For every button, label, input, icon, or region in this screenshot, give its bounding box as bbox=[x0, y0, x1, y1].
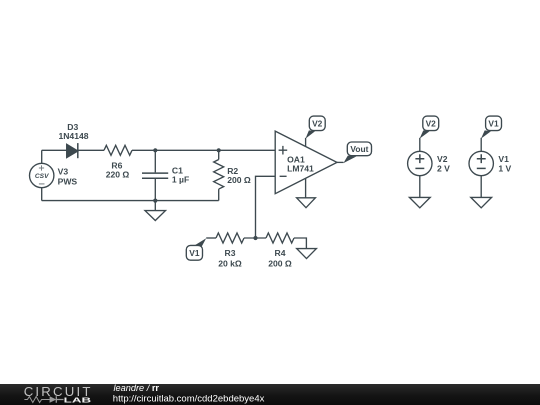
label C1 1uF bbox=[172, 165, 189, 184]
label V3 PWS bbox=[58, 167, 78, 187]
wire op-amp negative supply pin bbox=[305, 178, 307, 198]
op-amp OA1 LM741 bbox=[275, 131, 337, 194]
wire V1 flag to R3 bbox=[206, 237, 216, 239]
svg-text:20 kΩ: 20 kΩ bbox=[218, 259, 242, 269]
label OA1 LM741 bbox=[287, 154, 314, 173]
ground under op-amp bbox=[297, 198, 316, 208]
svg-text:LAB: LAB bbox=[64, 396, 92, 405]
resistor R3 bbox=[216, 233, 244, 243]
wire V3 bottom bbox=[41, 188, 43, 201]
flag V1 at R3 input bbox=[186, 238, 206, 260]
flag V2 on op-amp supply bbox=[306, 116, 326, 139]
label V2 2V bbox=[437, 154, 450, 174]
node junction R3-R4 bbox=[253, 236, 257, 240]
wire R6 to op-amp plus input bbox=[132, 149, 275, 151]
svg-text:200 Ω: 200 Ω bbox=[227, 175, 251, 185]
label R2 200 ohm bbox=[227, 166, 251, 185]
svg-text:leandre / rr: leandre / rr bbox=[114, 384, 160, 393]
svg-text:200 Ω: 200 Ω bbox=[268, 259, 292, 269]
node junction bottom-C1 bbox=[153, 199, 157, 203]
svg-text:V1: V1 bbox=[498, 154, 509, 164]
wire top rail left segment bbox=[42, 149, 67, 151]
label R6 220 ohm bbox=[106, 161, 130, 180]
svg-text:V1: V1 bbox=[488, 119, 499, 129]
label R3 20 kohm bbox=[218, 248, 242, 268]
label V1 1V bbox=[498, 154, 511, 174]
footer bar bbox=[0, 384, 540, 405]
svg-text:1 µF: 1 µF bbox=[172, 175, 189, 185]
label D3 1N4148 bbox=[58, 122, 88, 141]
svg-text:PWS: PWS bbox=[58, 176, 78, 186]
svg-text:1N4148: 1N4148 bbox=[58, 131, 88, 141]
svg-text:LM741: LM741 bbox=[287, 163, 314, 173]
node junction top-C1 bbox=[153, 148, 157, 152]
wire op-amp output bbox=[337, 161, 344, 163]
resistor R2 bbox=[214, 150, 224, 200]
svg-text:R3: R3 bbox=[225, 248, 236, 258]
voltage source V3 (CSV/PWS) bbox=[30, 163, 54, 187]
svg-text:http://circuitlab.com/cdd2ebde: http://circuitlab.com/cdd2ebdebye4x bbox=[113, 393, 265, 404]
wire R3 to R4 bbox=[244, 237, 266, 239]
diode D3 bbox=[67, 143, 78, 158]
footer author text bbox=[113, 383, 265, 405]
wire op-amp positive supply pin bbox=[305, 138, 307, 147]
ground under C1 bbox=[145, 201, 166, 221]
ground under V1 bbox=[471, 197, 492, 207]
node junction top-R2 bbox=[217, 148, 221, 152]
capacitor C1 bbox=[142, 150, 168, 200]
wire V3 top to top rail bbox=[41, 150, 43, 163]
wire R4 to ground bbox=[294, 238, 306, 249]
svg-text:V2: V2 bbox=[312, 119, 323, 129]
svg-text:2 V: 2 V bbox=[437, 164, 450, 174]
wire V1 bottom bbox=[480, 176, 482, 198]
svg-text:V2: V2 bbox=[426, 119, 437, 129]
wire V2 bottom bbox=[419, 176, 421, 198]
svg-text:CSV: CSV bbox=[35, 173, 49, 180]
flag V1 on source V1 bbox=[481, 116, 502, 139]
ground right of R4 bbox=[297, 249, 317, 259]
wire V1 top bbox=[480, 138, 482, 152]
resistor R6 bbox=[104, 145, 132, 155]
wire V2 top bbox=[419, 138, 421, 152]
wire bottom rail bbox=[42, 200, 219, 202]
svg-text:Vout: Vout bbox=[350, 144, 368, 154]
svg-text:V1: V1 bbox=[189, 248, 200, 258]
flag Vout bbox=[343, 142, 371, 163]
voltage source V1 bbox=[469, 151, 493, 175]
flag V2 on source V2 bbox=[420, 116, 439, 139]
label R4 200 ohm bbox=[268, 248, 292, 268]
wire diode to R6 bbox=[78, 149, 104, 151]
svg-text:V3: V3 bbox=[58, 167, 69, 177]
voltage source V2 bbox=[408, 151, 432, 175]
svg-text:R4: R4 bbox=[275, 248, 286, 258]
CircuitLab logo bbox=[24, 384, 92, 405]
resistor R4 bbox=[266, 233, 294, 243]
svg-text:V2: V2 bbox=[437, 154, 448, 164]
ground under V2 bbox=[409, 197, 430, 207]
wire op-amp inverting input to feedback node bbox=[256, 176, 276, 238]
svg-text:220 Ω: 220 Ω bbox=[106, 170, 130, 180]
svg-text:1 V: 1 V bbox=[498, 164, 511, 174]
